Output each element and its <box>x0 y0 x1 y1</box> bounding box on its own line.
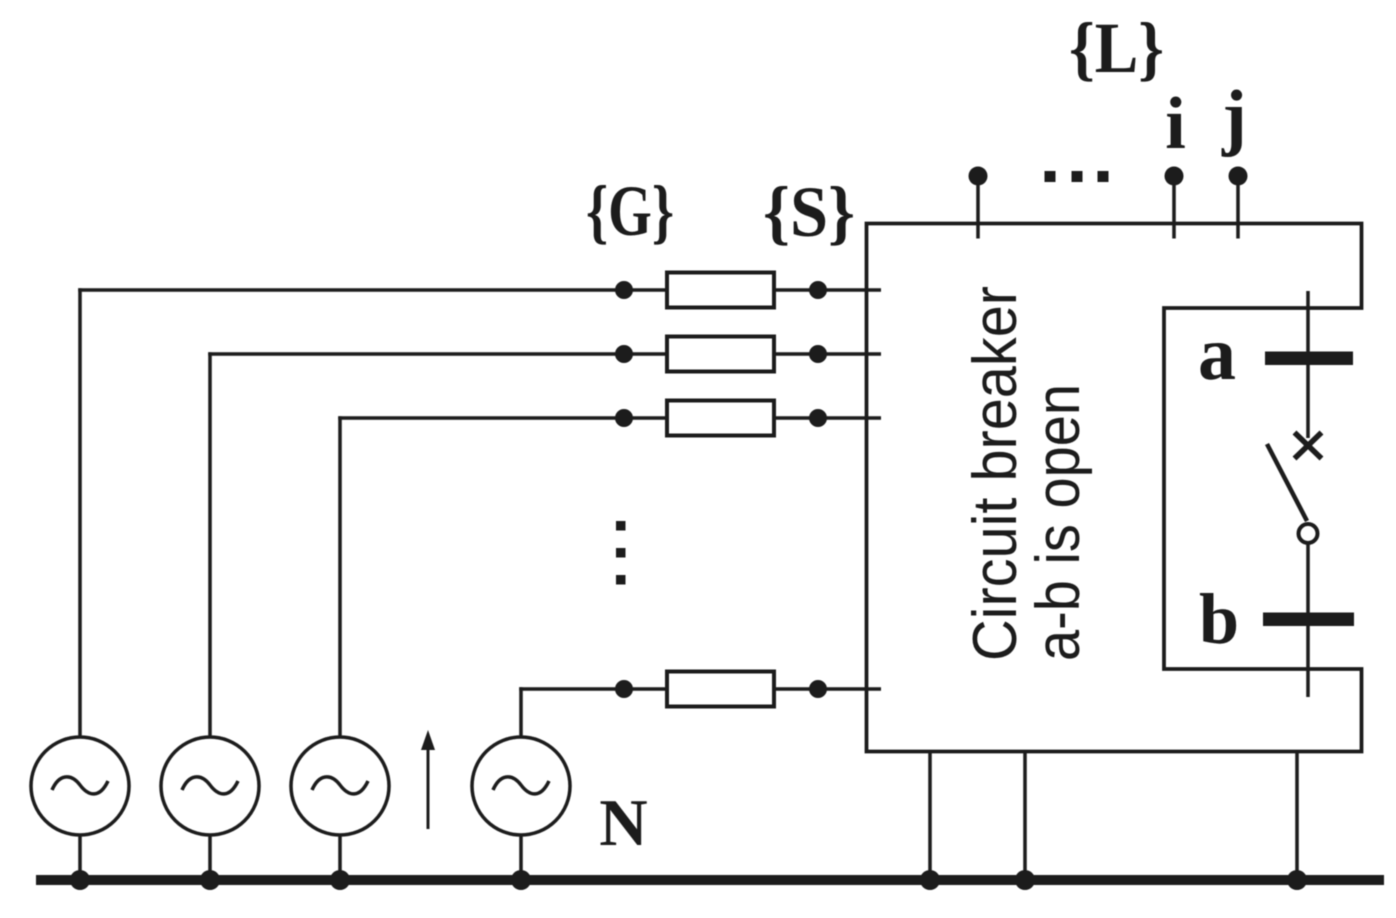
wire N bottom lead <box>519 835 523 880</box>
node row4 left <box>615 680 633 698</box>
svg-text:b: b <box>1199 579 1239 659</box>
wire breaker contact lower <box>1306 544 1310 698</box>
node G3-bus junction <box>330 870 350 890</box>
wire row2 left <box>208 352 667 356</box>
node terminal j <box>1229 167 1248 186</box>
svg-text:{G}: {G} <box>586 171 674 251</box>
arrow (phase reference) <box>421 730 435 829</box>
breaker switch arm (open) <box>1267 444 1307 521</box>
breaker contact plate b <box>1263 613 1354 627</box>
node row2 left <box>615 345 633 363</box>
resistor S2 <box>667 337 774 372</box>
svg-text:j: j <box>1221 76 1247 158</box>
node row3 left <box>615 409 633 427</box>
resistor S3 <box>667 401 774 436</box>
wire G2 top lead <box>208 352 212 737</box>
wire row3 right <box>774 416 881 420</box>
node G1-bus junction <box>70 870 90 890</box>
node terminal i <box>1165 167 1184 186</box>
node row2 right <box>809 345 827 363</box>
terminal stub j <box>1236 176 1240 239</box>
ellipsis vertical (more generators) <box>616 521 626 585</box>
node N-bus junction <box>511 870 531 890</box>
node G2-bus junction <box>200 870 220 890</box>
terminal stub (leftmost load) <box>976 176 980 239</box>
wire G3 bottom lead <box>338 835 342 880</box>
wire G1 top lead <box>78 288 82 737</box>
svg-text:i: i <box>1165 83 1186 165</box>
wire breaker contact upper <box>1306 291 1310 438</box>
svg-text:a-b is open: a-b is open <box>1024 384 1093 661</box>
svg-text:{L}: {L} <box>1069 8 1164 88</box>
breaker contact plate a <box>1265 352 1353 366</box>
wire row1 left <box>78 288 667 292</box>
node row1 right <box>809 281 827 299</box>
circuit breaker box outline <box>867 224 1362 752</box>
wire row1 right <box>774 288 881 292</box>
node terminal leftmost <box>969 167 988 186</box>
breaker cross mark (fixed contact) <box>1295 433 1322 459</box>
node row1 left <box>615 281 633 299</box>
node bottom lead 2 <box>1015 870 1035 890</box>
wire N top lead <box>519 687 523 737</box>
bus bar (common neutral bus) <box>36 875 1384 885</box>
AC source G2 <box>161 737 259 835</box>
terminal stub i <box>1172 176 1176 239</box>
svg-text:N: N <box>599 786 647 860</box>
wire breaker bottom lead 3 <box>1295 752 1299 881</box>
resistor S4 <box>667 672 774 707</box>
wire row2 right <box>774 352 881 356</box>
wire G3 top lead <box>338 416 342 737</box>
node bottom lead 3 <box>1287 870 1307 890</box>
wire row3 left <box>338 416 667 420</box>
node row3 right <box>809 409 827 427</box>
wire breaker bottom lead 1 <box>928 752 932 881</box>
AC source G1 <box>31 737 129 835</box>
AC source N <box>472 737 570 835</box>
AC source G3 <box>291 737 389 835</box>
svg-text:{S}: {S} <box>763 172 855 252</box>
breaker hinge circle <box>1299 524 1318 543</box>
wire G1 bottom lead <box>78 835 82 880</box>
svg-text:Circuit breaker: Circuit breaker <box>961 286 1030 661</box>
resistor S1 <box>667 273 774 308</box>
svg-text:a: a <box>1198 312 1236 396</box>
wire row4 right <box>774 687 881 691</box>
wire row4 left <box>519 687 667 691</box>
node bottom lead 1 <box>920 870 940 890</box>
node row4 right <box>809 680 827 698</box>
ellipsis horizontal (more loads) <box>1045 171 1109 182</box>
wire G2 bottom lead <box>208 835 212 880</box>
wire breaker bottom lead 2 <box>1023 752 1027 881</box>
